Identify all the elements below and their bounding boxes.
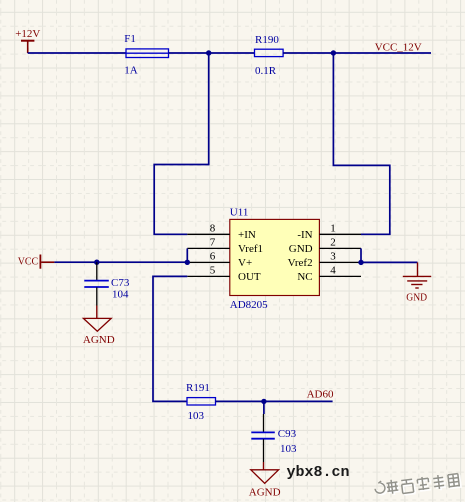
- wire: [283, 52, 431, 54]
- pin 4: [297, 265, 361, 283]
- svg-text:C73: C73: [111, 277, 130, 289]
- ground AGND: [83, 318, 115, 346]
- node junction: [358, 260, 363, 265]
- svg-text:R191: R191: [186, 382, 210, 394]
- wire: [360, 248, 362, 262]
- wire: [28, 52, 126, 54]
- svg-text:6: 6: [210, 251, 216, 263]
- svg-text:F1: F1: [124, 33, 136, 45]
- svg-text:GND: GND: [406, 291, 427, 303]
- svg-text:+IN: +IN: [238, 229, 256, 241]
- svg-text:AGND: AGND: [83, 334, 115, 346]
- wire: [96, 306, 98, 319]
- svg-text:VCC: VCC: [18, 256, 38, 268]
- svg-text:AGND: AGND: [249, 487, 281, 499]
- pin 8: [187, 223, 256, 241]
- capacitor C73: [84, 262, 130, 305]
- svg-text:-IN: -IN: [297, 229, 312, 241]
- wire: [361, 261, 418, 263]
- node junction: [185, 260, 190, 265]
- node junction: [261, 399, 266, 404]
- svg-text:R190: R190: [255, 34, 279, 46]
- pin 2: [289, 237, 361, 255]
- wire: [54, 261, 187, 263]
- svg-text:AD60: AD60: [307, 388, 334, 400]
- svg-text:1A: 1A: [124, 65, 138, 77]
- node junction: [94, 260, 99, 265]
- svg-text:2: 2: [330, 237, 336, 249]
- fuse F1: [124, 33, 168, 77]
- svg-text:OUT: OUT: [238, 271, 261, 283]
- svg-text:4: 4: [330, 265, 336, 277]
- svg-text:NC: NC: [297, 271, 312, 283]
- pin 3: [288, 251, 361, 269]
- node junction: [331, 50, 336, 55]
- ground GND: [403, 262, 431, 303]
- svg-text:103: 103: [188, 410, 205, 422]
- capacitor C93: [251, 414, 297, 462]
- svg-text:U11: U11: [230, 206, 249, 218]
- wire: [263, 462, 265, 470]
- svg-text:V+: V+: [238, 257, 252, 269]
- svg-text:5: 5: [210, 265, 216, 277]
- resistor R191: [186, 382, 216, 422]
- wire: [169, 52, 255, 54]
- svg-text:Vref1: Vref1: [238, 243, 263, 255]
- wire: [153, 276, 187, 401]
- svg-text:7: 7: [210, 237, 216, 249]
- svg-text:ybx8.cn: ybx8.cn: [287, 464, 350, 481]
- wire: [263, 401, 265, 414]
- pin 6: [187, 251, 252, 269]
- wire: [216, 400, 333, 402]
- wire: [186, 248, 188, 262]
- svg-text:GND: GND: [289, 243, 313, 255]
- pin 5: [187, 265, 261, 283]
- ground AGND: [249, 470, 281, 499]
- svg-text:3: 3: [330, 251, 336, 263]
- pin 1: [297, 223, 361, 241]
- svg-text:AD8205: AD8205: [230, 299, 268, 311]
- wire: [154, 53, 209, 234]
- wire: [333, 53, 389, 234]
- svg-text:104: 104: [112, 288, 129, 300]
- svg-text:+12V: +12V: [15, 28, 40, 40]
- resistor R190: [255, 34, 284, 77]
- op-amp U1 body: [230, 206, 320, 311]
- power port +12V: [15, 28, 40, 53]
- svg-text:1: 1: [330, 223, 336, 235]
- port VCC: [18, 255, 55, 269]
- svg-text:8: 8: [210, 223, 216, 235]
- svg-text:C93: C93: [278, 428, 297, 440]
- svg-text:VCC_12V: VCC_12V: [375, 41, 422, 53]
- svg-text:0.1R: 0.1R: [255, 65, 277, 77]
- svg-text:Vref2: Vref2: [288, 257, 313, 269]
- svg-text:103: 103: [280, 443, 297, 455]
- node junction: [206, 50, 211, 55]
- pin 7: [187, 237, 263, 255]
